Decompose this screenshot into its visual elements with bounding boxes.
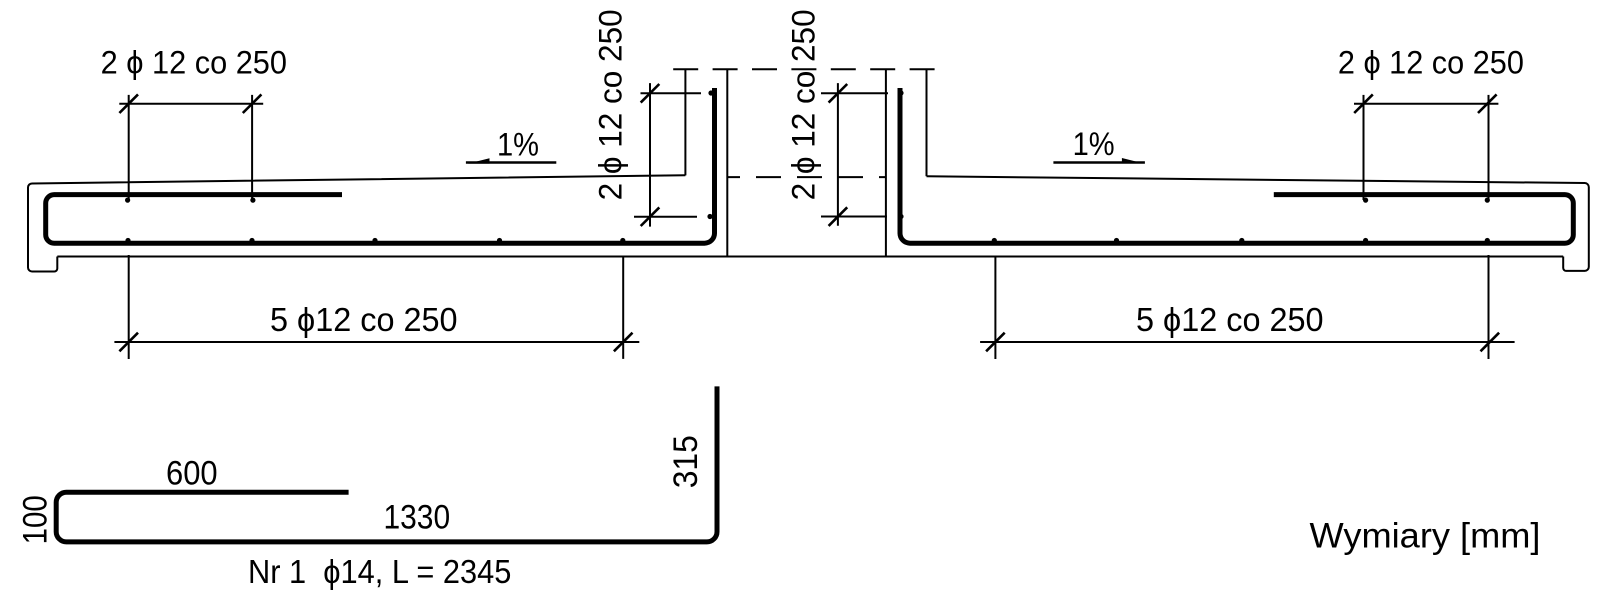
slab bottom line	[57, 256, 1563, 258]
dimension top-left line	[119, 95, 263, 359]
bent bar Nr 1 shape	[56, 386, 717, 542]
svg-text:2 ϕ 12 co 250: 2 ϕ 12 co 250	[785, 9, 821, 200]
dimension center-left vertical line	[634, 83, 701, 227]
svg-text:600: 600	[166, 454, 218, 492]
svg-text:2 ϕ 12 co 250: 2 ϕ 12 co 250	[101, 45, 287, 81]
bar section dots right hook	[898, 90, 903, 219]
svg-text:1330: 1330	[384, 499, 451, 537]
svg-text:5 ϕ12 co 250: 5 ϕ12 co 250	[270, 301, 458, 338]
svg-text:5 ϕ12 co 250: 5 ϕ12 co 250	[1136, 301, 1324, 338]
dimension center-right ticks	[829, 84, 848, 226]
dimension bottom-left ticks	[119, 333, 632, 352]
hidden wall dashed line top	[673, 68, 943, 70]
wall face right-outer	[926, 69, 928, 176]
bar section dots right bottom	[992, 238, 1490, 243]
wall face left-outer	[684, 69, 686, 175]
bar section dots left top	[125, 198, 255, 203]
dimension top-right ticks	[1354, 94, 1496, 113]
dimension bottom-right line	[980, 257, 1515, 360]
slope arrow right	[1053, 161, 1145, 163]
dimension bottom-right ticks	[986, 333, 1499, 352]
svg-text:1%: 1%	[497, 127, 539, 163]
dimension bottom-left line	[114, 257, 639, 359]
rebar left slab	[46, 88, 715, 243]
svg-text:Nr 1 ϕ14, L = 2345: Nr 1 ϕ14, L = 2345	[248, 553, 511, 590]
dimension top-right line	[1354, 95, 1498, 359]
svg-text:100: 100	[17, 495, 55, 544]
hidden slab top dashed line	[727, 176, 886, 178]
bar section dots left hook	[707, 90, 713, 219]
slope arrowhead right	[1122, 158, 1144, 163]
bar section dots right top	[1363, 198, 1490, 203]
wall face right-inner	[885, 69, 887, 256]
slope arrow left	[466, 161, 556, 163]
svg-text:315: 315	[667, 435, 705, 488]
dimension center-right vertical line	[821, 83, 888, 226]
dimension center-left ticks	[641, 84, 660, 226]
dimension top-left ticks	[119, 94, 261, 113]
slope arrowhead left	[468, 158, 490, 163]
rebar right slab	[900, 88, 1573, 243]
bar section dots left bottom	[125, 238, 625, 243]
wall face left-inner	[726, 69, 728, 256]
svg-text:1%: 1%	[1073, 126, 1115, 162]
svg-text:Wymiary [mm]: Wymiary [mm]	[1310, 517, 1541, 556]
right slab outline	[927, 176, 1589, 271]
svg-text:2 ϕ 12 co 250: 2 ϕ 12 co 250	[1338, 45, 1524, 81]
left slab outline	[28, 175, 685, 271]
svg-text:2 ϕ 12 co 250: 2 ϕ 12 co 250	[593, 9, 629, 200]
